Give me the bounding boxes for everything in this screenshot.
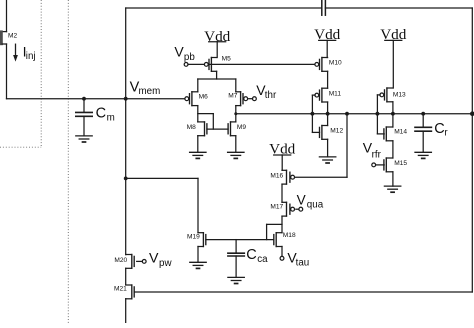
wire M18 source to V_tau (281, 247, 283, 257)
node C_m junction (82, 97, 86, 101)
label V_mem (130, 79, 161, 97)
wire M7 drain to M9 (235, 106, 237, 122)
label V_rfr (363, 140, 382, 161)
svg-text:C: C (96, 105, 106, 121)
wire M19 source (197, 247, 199, 263)
transistor M13 (380, 88, 393, 102)
wire V_mem column (125, 99, 127, 255)
svg-text:rfr: rfr (372, 150, 382, 161)
svg-text:C: C (246, 247, 256, 263)
wire V_mem horizontal (7, 98, 186, 100)
ground C_ca (228, 277, 244, 283)
label M19 (187, 233, 200, 240)
capacitor C_m (76, 99, 92, 136)
ground C_m (76, 136, 92, 142)
ground M8 (190, 152, 206, 158)
label V_pw (149, 250, 172, 269)
transistor M8 (198, 122, 207, 136)
wire M12 source (327, 139, 329, 157)
wire M6 drain to M8 (197, 106, 199, 122)
node M7 M9 drains (234, 112, 237, 115)
svg-text:M18: M18 (283, 232, 296, 239)
svg-text:M16: M16 (270, 173, 283, 180)
wire M15 source (392, 172, 394, 186)
label M18 (283, 232, 296, 239)
feedback capacitor (322, 0, 326, 15)
wire M12 drain (327, 114, 329, 126)
node V_mem (124, 97, 128, 101)
svg-text:M11: M11 (329, 90, 342, 97)
transistor M20 (126, 255, 135, 269)
svg-text:M21: M21 (114, 285, 127, 292)
label M20 (114, 257, 127, 264)
label C_r (434, 121, 448, 139)
node output to M16 gate (345, 112, 349, 116)
capacitor C_r (415, 114, 431, 153)
label C_m (96, 105, 115, 123)
wire inverter output net (236, 113, 472, 115)
wire M11 drain (327, 102, 329, 114)
transistor M11 (315, 88, 328, 102)
wire M17 source down (281, 216, 283, 233)
svg-text:M6: M6 (199, 94, 208, 101)
wire M8 M9 gates (207, 128, 228, 130)
wire output to M16 gate (294, 114, 347, 178)
svg-text:M17: M17 (270, 204, 283, 211)
svg-text:M5: M5 (222, 55, 231, 62)
wire M14 source to M15 (392, 141, 394, 158)
wire differential pair sources (198, 79, 236, 92)
label M16 (270, 173, 283, 180)
svg-text:qua: qua (307, 199, 324, 210)
transistor M18 (274, 233, 282, 247)
label M15 (394, 160, 407, 167)
label I_inj (23, 44, 36, 62)
svg-text:M19: M19 (187, 233, 200, 240)
svg-text:M14: M14 (394, 129, 407, 136)
node M13 gate junction (376, 112, 380, 116)
transistor M10 (315, 58, 328, 72)
label M13 (393, 91, 406, 98)
svg-text:M20: M20 (114, 257, 127, 264)
svg-text:M12: M12 (330, 127, 343, 134)
transistor M16 (282, 170, 295, 184)
transistor M19 (198, 233, 206, 247)
svg-text:V: V (174, 44, 184, 60)
wire M13 drain (392, 102, 394, 114)
label M21 (114, 285, 127, 292)
transistor M15 (384, 158, 393, 172)
wire feedback top edge right (325, 7, 472, 9)
transistor M5 (204, 58, 216, 72)
wire feedback right edge (471, 8, 473, 292)
wire feedback top edge left (126, 7, 322, 9)
transistor M7 (236, 92, 248, 106)
label M10 (329, 60, 342, 67)
wire to M19 drain (126, 178, 198, 232)
svg-text:M13: M13 (393, 91, 406, 98)
svg-text:M8: M8 (187, 124, 196, 131)
wire M11 gate to output net (312, 95, 315, 114)
dotted separator line (67, 0, 69, 323)
label V_thr (256, 82, 277, 101)
label V_qua (297, 192, 324, 210)
power Vdd above M13 (380, 26, 407, 88)
svg-text:M2: M2 (8, 32, 17, 39)
wire M18 diode loop (267, 224, 282, 239)
power Vdd above M10 (314, 26, 341, 58)
terminal V_pw (137, 260, 146, 264)
svg-text:m: m (107, 112, 115, 123)
wire M13 gate to output net (377, 95, 380, 114)
wire M20 source to M21 (125, 268, 127, 285)
node M11 gate junction (311, 112, 315, 116)
wire M19 M18 gates (206, 239, 274, 241)
node V_mem lower junction (124, 177, 128, 181)
transistor M21 (126, 285, 135, 299)
ground C_r (415, 152, 431, 158)
power Vdd above M16 (269, 141, 296, 171)
wire feedback left edge (125, 8, 127, 99)
dashed synapse box right edge (40, 0, 42, 147)
wire M5 drain to pair (216, 71, 218, 79)
label M7 (228, 93, 237, 100)
transistor M6 (185, 92, 198, 106)
capacitor C_ca (228, 240, 244, 278)
wire M8 source (197, 136, 199, 153)
svg-text:V: V (297, 192, 306, 207)
svg-text:mem: mem (139, 86, 161, 97)
label M9 (237, 124, 246, 131)
current arrow I_inj (13, 44, 18, 61)
label M14 (394, 129, 407, 136)
svg-text:V: V (149, 250, 159, 266)
node M11 M12 drains (326, 112, 330, 116)
svg-text:pb: pb (184, 52, 195, 63)
wire feedback bottom edge (134, 291, 472, 293)
svg-text:M15: M15 (394, 160, 407, 167)
terminal V_thr (249, 97, 257, 101)
transistor M12 (320, 126, 328, 140)
label V_tau (287, 250, 309, 269)
label C_ca (246, 247, 268, 265)
wire M8 diode connection (198, 114, 214, 130)
transistor M9 (228, 122, 236, 136)
wire M21 source to bottom (125, 299, 127, 323)
node C_r junction (421, 112, 425, 116)
svg-text:inj: inj (26, 51, 36, 62)
terminal V_tau (280, 256, 284, 260)
label M11 (329, 90, 342, 97)
ground M12 (319, 157, 335, 163)
terminal V_qua (296, 207, 303, 211)
wire M14 drain (392, 114, 394, 127)
label M8 (187, 124, 196, 131)
transistor M17 (282, 202, 295, 216)
svg-text:thr: thr (265, 90, 277, 101)
wire M10 drain to M11 (327, 71, 329, 88)
svg-text:ca: ca (257, 254, 268, 265)
svg-text:pw: pw (159, 258, 172, 269)
dashed synapse box bottom edge (0, 146, 41, 148)
ground M19 (190, 262, 206, 268)
svg-text:M10: M10 (329, 60, 342, 67)
power Vdd above M5 (204, 28, 231, 58)
wire V_pb to M5 and M10 gates (188, 63, 315, 65)
wire M9 source (235, 136, 237, 153)
ground M15 (384, 186, 400, 192)
label M6 (199, 94, 208, 101)
svg-text:M7: M7 (228, 93, 237, 100)
terminal V_rfr (372, 163, 384, 167)
svg-text:M9: M9 (237, 124, 246, 131)
node M13 M14 drains (391, 112, 395, 116)
wire M12 gate (312, 114, 319, 133)
node feedback output (470, 111, 474, 116)
svg-text:C: C (434, 121, 444, 137)
terminal V_pb (184, 63, 188, 67)
ground M9 (228, 152, 244, 158)
transistor M14 (384, 127, 393, 141)
label M12 (330, 127, 343, 134)
transistor M2 (0, 0, 6, 99)
label M2 (8, 32, 17, 39)
label M5 (222, 55, 231, 62)
label V_pb (174, 44, 195, 63)
wire M14 gate (377, 114, 384, 134)
label M17 (270, 204, 283, 211)
svg-text:tau: tau (296, 257, 310, 268)
wire M16 drain to M17 (281, 184, 283, 202)
